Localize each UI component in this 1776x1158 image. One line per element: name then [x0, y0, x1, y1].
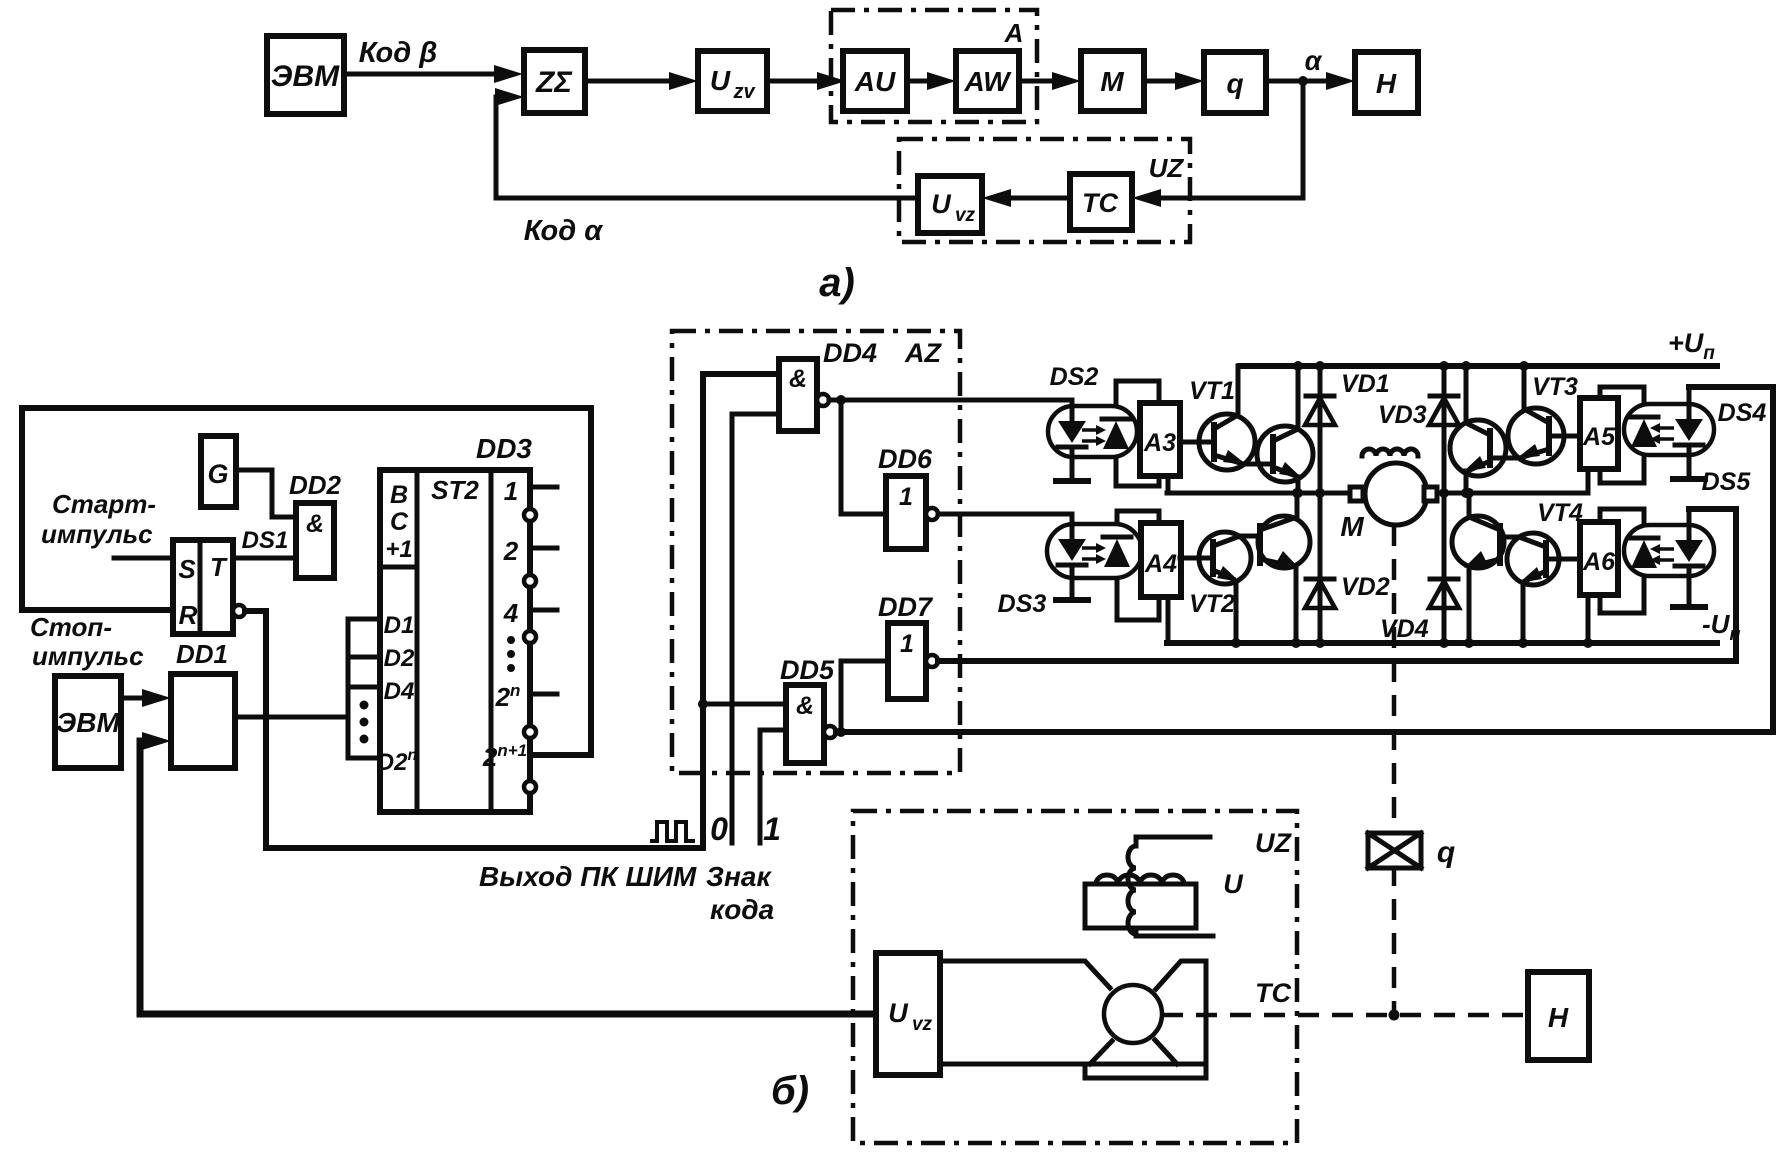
DS5 return bar [1673, 604, 1705, 610]
U core box [1085, 884, 1196, 928]
DS4 light arrows [1658, 426, 1674, 430]
svg-text:A4: A4 [1144, 550, 1177, 578]
svg-text:+1: +1 [385, 536, 412, 563]
VT3 output transistor [1450, 420, 1506, 476]
svg-text:DD3: DD3 [476, 433, 532, 464]
block M motor part a [1081, 51, 1144, 111]
TC top wire and brush [940, 961, 1110, 988]
block AW [956, 51, 1019, 111]
svg-text:DS5: DS5 [1702, 468, 1752, 496]
svg-text:VT3: VT3 [1532, 373, 1578, 401]
DS4 return bar [1673, 476, 1705, 482]
wire DD1 output to D input group [235, 715, 347, 720]
svg-text:VT2: VT2 [1189, 590, 1235, 618]
svg-text:DD6: DD6 [878, 444, 933, 474]
svg-text:VT1: VT1 [1189, 377, 1235, 405]
wire DD7 output long line to DS5 right side [938, 509, 1736, 661]
svg-text:R: R [179, 600, 198, 630]
block H load part a [1355, 52, 1418, 113]
VT2 output transistor [1258, 516, 1310, 568]
svg-text:4: 4 [503, 598, 519, 628]
TC bottom bar [1085, 1064, 1206, 1078]
pulse train symbol at PWM output [650, 822, 695, 841]
VT3 driver [1508, 408, 1564, 464]
svg-text:импульс: импульс [41, 519, 153, 549]
svg-text:2: 2 [503, 536, 519, 566]
svg-text:VD2: VD2 [1341, 573, 1390, 601]
svg-text:q: q [1437, 836, 1455, 869]
block H load part b [1528, 972, 1589, 1060]
svg-text:A: A [1004, 18, 1024, 48]
wire DD4 output branch down to DD6 input [841, 400, 886, 514]
svg-text:T: T [210, 552, 228, 582]
dash-dot frame UZ part a [899, 139, 1190, 242]
trigger T flip-flop DD with S R inputs [173, 540, 233, 634]
amplifier A6 [1580, 522, 1618, 595]
coupling q symbol box with X [1368, 833, 1421, 868]
svg-text:D4: D4 [384, 678, 415, 705]
svg-text:VD4: VD4 [1380, 615, 1429, 643]
svg-text:DS1: DS1 [242, 527, 289, 554]
motor left terminal [1350, 487, 1363, 501]
svg-text:α: α [1305, 46, 1323, 76]
block Uvz part a [918, 176, 982, 233]
wire AU to AW [907, 79, 934, 84]
svg-text:1: 1 [763, 811, 781, 847]
wire start pulse to S input [114, 556, 173, 561]
power rail +Up top [1240, 363, 1717, 369]
svg-text:TC: TC [1255, 978, 1291, 1008]
DS2 bias rectangle [1116, 381, 1159, 486]
svg-text:B: B [390, 481, 408, 509]
dash-dot frame AZ [672, 331, 960, 773]
gate DD4 AND [779, 359, 817, 431]
wire EVM to ZS with arrow, label Kod beta [344, 72, 501, 77]
DS3 light arrows [1082, 546, 1098, 550]
DS4 LED diode [1687, 387, 1692, 419]
svg-text:U: U [931, 189, 952, 219]
DS2 light arrows [1082, 428, 1098, 432]
TC rotor circle [1104, 985, 1162, 1043]
svg-text:Выход ПК ШИМ: Выход ПК ШИМ [479, 861, 697, 892]
motor M armature coil [1362, 449, 1418, 456]
svg-text:D2: D2 [384, 645, 415, 672]
svg-text:Код β: Код β [359, 37, 437, 69]
svg-text:VD1: VD1 [1341, 370, 1390, 398]
DS2 ground bar [1056, 478, 1088, 484]
dash-dot frame A [831, 10, 1037, 122]
VT2 driver [1199, 532, 1251, 584]
wire A4 bottom to -Up rail [1166, 597, 1171, 643]
wire sign-code 0 into DD4 input 2 [732, 414, 779, 843]
svg-text:&: & [789, 365, 807, 393]
wire motor emitter line [1167, 491, 1351, 496]
U top lead [1136, 837, 1210, 845]
DS3 capsule [1047, 524, 1142, 578]
svg-text:Старт-: Старт- [52, 489, 156, 519]
block G clock generator [201, 436, 236, 507]
svg-text:S: S [178, 554, 196, 584]
svg-text:TC: TC [1082, 188, 1118, 218]
svg-text:Стоп-: Стоп- [30, 612, 112, 642]
svg-text:1: 1 [504, 476, 518, 506]
svg-text:UZ: UZ [1149, 153, 1185, 183]
svg-text:ЭВМ: ЭВМ [56, 707, 120, 738]
svg-text:DD4: DD4 [823, 338, 877, 368]
DS3 ground bar [1056, 597, 1088, 603]
mechanical shaft dashed line from motor to TC [1392, 525, 1397, 1015]
svg-text:M: M [1100, 66, 1124, 97]
VT4 output transistor [1452, 516, 1504, 568]
svg-text:q: q [1226, 68, 1243, 99]
svg-text:vz: vz [955, 205, 976, 226]
svg-text:U: U [1223, 869, 1244, 899]
svg-text:G: G [207, 459, 228, 489]
wire ZS to Uzv [585, 79, 676, 84]
wire PWM vertical to DD4 input 1 and DD5 input 1 [703, 374, 779, 848]
svg-text:VT4: VT4 [1537, 499, 1583, 527]
DS4 photodiode [1630, 415, 1658, 420]
wire M to q [1144, 79, 1182, 84]
wire TC to Uvz [1004, 196, 1070, 201]
wire T output to DD2 input 2 [233, 556, 296, 561]
wire A6 bottom to -Up rail [1586, 595, 1591, 643]
svg-text:C: C [390, 508, 409, 536]
amplifier A4 [1141, 523, 1181, 597]
svg-text:DS2: DS2 [1050, 363, 1099, 391]
svg-text:ZΣ: ZΣ [535, 66, 573, 99]
block AU [843, 51, 907, 111]
svg-text:а): а) [819, 261, 855, 305]
TC right bracket [1156, 961, 1206, 1078]
wire alpha node down to TC [1154, 81, 1303, 198]
VT4 driver [1507, 533, 1559, 585]
dash-dot frame UZ part b [853, 811, 1297, 1143]
svg-text:U: U [888, 998, 909, 1028]
svg-text:M: M [1340, 511, 1364, 542]
block Uvz part b [876, 953, 940, 1075]
svg-text:AU: AU [854, 66, 896, 97]
svg-text:D1: D1 [384, 612, 415, 639]
svg-text:A6: A6 [1582, 548, 1616, 576]
DS3 bias rectangle [1117, 511, 1159, 620]
svg-text:vz: vz [912, 1014, 933, 1035]
wire A3 bottom to emitter line [1166, 476, 1171, 493]
U vertical winding [1128, 846, 1136, 934]
U horizontal winding [1096, 875, 1184, 884]
svg-text:UZ: UZ [1255, 828, 1292, 858]
svg-text:ЭВМ: ЭВМ [271, 60, 340, 93]
block Uzv [698, 51, 767, 111]
svg-text:импульс: импульс [32, 641, 144, 671]
VT1 driver [1199, 414, 1255, 470]
svg-text:A3: A3 [1143, 429, 1176, 457]
block DD1 register [171, 674, 235, 768]
amplifier A3 [1140, 403, 1180, 476]
svg-text:DD5: DD5 [780, 655, 835, 685]
svg-text:H: H [1376, 68, 1397, 99]
svg-text:DD2: DD2 [289, 470, 342, 500]
wire Uzv to AU [767, 79, 824, 84]
svg-text:кода: кода [710, 894, 774, 925]
svg-text:0: 0 [710, 811, 728, 847]
wire G to DD2 input 1 [236, 470, 296, 517]
svg-text:H: H [1548, 1002, 1569, 1033]
D input bracket box with divider cells [348, 619, 380, 758]
svg-text:VD3: VD3 [1378, 401, 1427, 429]
svg-text:Код α: Код α [524, 215, 603, 247]
wire q to H with node alpha [1266, 79, 1333, 84]
block EVM (computer) part b [55, 676, 121, 768]
wire EVM to DD1 with arrow [121, 696, 149, 701]
wire PWM from trigger inverted output down and right [245, 611, 703, 848]
DS5 light arrows [1658, 547, 1674, 551]
svg-text:AW: AW [963, 66, 1012, 97]
svg-text:A5: A5 [1582, 423, 1616, 451]
wire reset frame from counter output 2^(n+1) to R input of trigger [22, 408, 591, 755]
DS2 photodiode [1102, 417, 1130, 422]
svg-text:DS4: DS4 [1718, 399, 1767, 427]
svg-text:DD7: DD7 [878, 592, 934, 622]
svg-text:DS3: DS3 [998, 590, 1047, 618]
VT1 output transistor [1257, 426, 1313, 482]
wire feedback Kod alpha from Uvz to ZS [496, 97, 918, 198]
block EVM (computer) part a [267, 36, 344, 114]
wire DD5 output long line to DS4 right side [836, 387, 1773, 732]
power rail -Up bottom [1167, 640, 1717, 646]
DS3 LED diode [1070, 514, 1075, 539]
TC bottom brushes [1090, 1041, 1112, 1064]
DS5 bias rectangle [1600, 509, 1644, 613]
DS3 photodiode [1103, 535, 1131, 540]
wire DD6 output to optocoupler DS3 [938, 512, 1072, 517]
U bottom lead [1136, 933, 1213, 936]
block ZΣ summator [524, 50, 585, 113]
counter unused output circles [524, 509, 536, 521]
wire DD5 output branch up to DD7 input [841, 661, 888, 732]
block q sensor part a [1204, 52, 1266, 113]
motor right terminal [1424, 487, 1437, 501]
DS5 LED diode [1687, 509, 1692, 540]
svg-text:1: 1 [899, 483, 913, 511]
DS2 LED diode [1070, 400, 1075, 421]
dashed line TC to H [1162, 1013, 1528, 1018]
node alpha dot and label [1298, 76, 1308, 86]
wire AW to M [1019, 79, 1059, 84]
svg-text:Знак: Знак [706, 861, 772, 892]
counter output stub wires [530, 485, 557, 490]
svg-text:zv: zv [732, 81, 756, 103]
motor M circle [1365, 463, 1427, 525]
svg-text:ST2: ST2 [431, 475, 479, 505]
block TC part a [1070, 174, 1132, 230]
wire sign-code 1 into DD5 input 2 [760, 730, 786, 843]
wire feedback from Uvz up into DD1 second input [140, 741, 876, 1014]
DS4 capsule [1624, 404, 1714, 455]
DS4 bias rectangle [1600, 387, 1644, 483]
gate DD2 AND [296, 503, 334, 578]
wire A5 bottom to emitter line [1586, 469, 1591, 493]
svg-text:U: U [710, 65, 731, 96]
svg-text:б): б) [771, 1069, 809, 1113]
DS5 capsule [1624, 525, 1714, 576]
DS2 capsule [1048, 406, 1137, 457]
svg-text:&: & [306, 510, 324, 538]
amplifier A5 [1580, 398, 1618, 469]
wire DD4 output to optocoupler DS2 [829, 398, 1072, 403]
svg-text:&: & [796, 692, 814, 720]
DS5 photodiode [1630, 536, 1658, 541]
svg-text:DD1: DD1 [176, 639, 228, 669]
svg-text:1: 1 [900, 630, 914, 658]
svg-text:AZ: AZ [904, 338, 942, 368]
inverted output circle of trigger [233, 605, 245, 617]
TC bottom wire [940, 1062, 1085, 1067]
